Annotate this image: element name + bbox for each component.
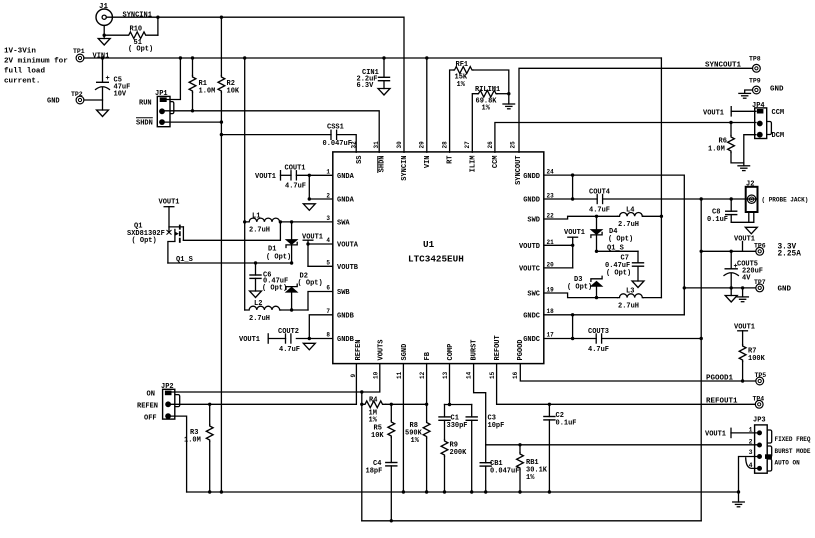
svg-text:0.047uF: 0.047uF	[323, 140, 352, 148]
svg-text:0.1uF: 0.1uF	[707, 216, 728, 224]
capacitor COUT2	[278, 328, 300, 354]
svg-text:2V minimum for: 2V minimum for	[4, 58, 68, 66]
capacitor C5	[96, 58, 131, 110]
wire JP4 pin3 to ground	[744, 135, 756, 166]
svg-text:( Opt): ( Opt)	[298, 280, 323, 288]
svg-text:REFOUT: REFOUT	[494, 335, 502, 360]
resistor RILIM1	[472, 86, 509, 152]
svg-text:REFEN: REFEN	[355, 339, 363, 360]
ground (C7, open triangle)	[632, 281, 644, 288]
wire pin1 line left portion	[281, 174, 292, 176]
svg-text:1%: 1%	[526, 474, 535, 482]
svg-text:1: 1	[326, 169, 330, 176]
wire L1 to pin 3 SWA	[281, 221, 333, 223]
svg-text:6.3V: 6.3V	[357, 82, 375, 90]
svg-text:4: 4	[326, 237, 330, 244]
wire pin 14 BURST	[474, 364, 486, 445]
svg-text:COUT3: COUT3	[588, 328, 609, 336]
wire VOUT1 tick to TP6 line	[742, 242, 744, 252]
junction pin8 / pin7 link	[308, 337, 311, 340]
wire pin 5	[308, 265, 333, 267]
svg-text:BURST: BURST	[470, 339, 478, 360]
svg-text:12: 12	[419, 371, 426, 379]
connector J2 probe jack	[746, 181, 809, 213]
svg-text:1.0M: 1.0M	[184, 437, 201, 445]
wire VOUTS drop to lower bus	[361, 392, 363, 521]
wire pin 19 SWC with jog	[544, 293, 618, 298]
wire CCM net: pin 26 to JP4 pin 2	[495, 123, 756, 153]
U1 bottom pin numbers	[350, 371, 519, 379]
wire FB line R4 to pin 12	[386, 403, 427, 405]
svg-text:CCM: CCM	[772, 109, 785, 117]
jumper JP3	[753, 417, 811, 474]
svg-text:FIXED FREQ: FIXED FREQ	[775, 436, 811, 443]
svg-text:OFF: OFF	[144, 415, 157, 423]
svg-text:31: 31	[373, 141, 380, 149]
capacitor COUT4	[589, 189, 610, 215]
svg-text:CSS1: CSS1	[327, 124, 344, 132]
svg-text:GNDD: GNDD	[523, 197, 540, 205]
svg-text:10pF: 10pF	[488, 422, 505, 430]
wire pin 2	[309, 198, 333, 200]
junction C5/VIN1	[101, 56, 104, 59]
svg-text:1V-3Vin: 1V-3Vin	[4, 48, 36, 56]
wire JP2 pin3 to ground bus	[171, 416, 187, 492]
svg-text:R6: R6	[719, 138, 727, 146]
capacitor C3	[466, 405, 505, 493]
junction GND rail / CSS1 ground line	[220, 133, 223, 136]
junction pin1 link	[308, 174, 311, 177]
test point TP8	[749, 56, 761, 73]
ground (below COUT5, open triangle)	[725, 288, 737, 302]
svg-text:JP4: JP4	[752, 102, 765, 110]
svg-text:SWB: SWB	[337, 289, 350, 297]
junction link/pin18	[571, 313, 574, 316]
svg-text:VOUTS: VOUTS	[377, 339, 385, 360]
svg-text:26: 26	[487, 141, 494, 149]
svg-text:11: 11	[396, 371, 403, 379]
svg-text:TP8: TP8	[749, 56, 761, 63]
svg-text:COMP: COMP	[447, 344, 455, 361]
test point TP7	[754, 279, 792, 294]
net tick VOUT1 (R7)	[737, 330, 748, 332]
svg-text:VOUTC: VOUTC	[519, 265, 540, 273]
svg-text:29: 29	[419, 141, 426, 149]
wire SYNCIN1 from J1 to pin 30	[107, 17, 405, 152]
U1 right pin names	[519, 173, 540, 344]
junction RB1 / bus	[518, 490, 521, 493]
svg-text:4.7uF: 4.7uF	[285, 183, 306, 191]
svg-text:VOUTD: VOUTD	[519, 243, 540, 251]
capacitor C7	[605, 251, 644, 281]
capacitor COUT3	[588, 328, 609, 354]
svg-text:VOUT1: VOUT1	[159, 199, 180, 207]
svg-text:( PROBE JACK): ( PROBE JACK)	[762, 197, 809, 204]
test point TP9	[749, 78, 784, 94]
svg-text:BURST MODE: BURST MODE	[775, 448, 811, 455]
diode D3	[567, 276, 602, 298]
wire JP3 pin4 link	[746, 458, 757, 469]
ground (R6/JP4, bar style)	[738, 166, 750, 171]
svg-text:VOUTB: VOUTB	[337, 264, 359, 272]
svg-text:GNDA: GNDA	[337, 197, 355, 205]
U1 right pin numbers	[547, 169, 555, 339]
wire pin 12 FB	[426, 364, 428, 421]
wire REFOUT1: pin 15 to TP4	[497, 364, 756, 405]
test point TP2	[71, 91, 84, 104]
inductor L2	[245, 300, 281, 323]
junction TP7 line / GND rail B	[683, 286, 686, 289]
svg-text:VOUT1: VOUT1	[734, 236, 755, 244]
resistor R10	[104, 26, 158, 54]
wire TP9 to ground	[745, 90, 753, 93]
junction R9 / bus	[443, 490, 446, 493]
svg-text:200K: 200K	[450, 449, 468, 457]
op-amp/IC U1 LTC3425EUH outline	[333, 152, 544, 364]
junction pin4 / VOUT link	[306, 242, 309, 245]
svg-text:14: 14	[465, 371, 472, 379]
wire OFF net: JP1 pin3 to GND rail	[165, 121, 222, 123]
svg-text:1%: 1%	[482, 105, 491, 113]
wire BURST net: corner to JP3 pin2	[486, 444, 757, 446]
svg-text:GND: GND	[47, 98, 60, 106]
svg-text:24: 24	[547, 169, 555, 176]
transistor Q1	[127, 207, 183, 263]
svg-text:3: 3	[326, 215, 330, 222]
svg-text:( Opt): ( Opt)	[128, 46, 153, 54]
wire TP2 to C5 ground leg	[84, 99, 103, 101]
junction COUT5 / TP6 line	[730, 250, 733, 253]
svg-text:AUTO ON: AUTO ON	[775, 460, 801, 467]
junction VOUTS vertical / R4 line	[360, 403, 363, 406]
ground (CIN1, open triangle)	[378, 89, 390, 96]
junction pin2 link	[308, 197, 311, 200]
junction L4 / VIN rail A	[660, 215, 663, 218]
svg-text:full load: full load	[4, 68, 45, 76]
junction R2 top / SYNCIN1	[220, 16, 223, 19]
wire COUT2 left to VOUT1 tick	[268, 338, 285, 340]
wire VOUT1 tick to JP3 pin1	[731, 432, 757, 434]
svg-text:3: 3	[749, 449, 753, 456]
ground (TP9, bar style)	[739, 93, 751, 98]
capacitor COUT5	[724, 251, 763, 288]
wire COUT4 to VOUT rail C and J2 line	[603, 198, 756, 200]
svg-text:SWC: SWC	[527, 291, 540, 299]
svg-text:FB: FB	[424, 351, 432, 360]
svg-text:SYNCIN1: SYNCIN1	[123, 11, 152, 19]
U1 bottom pin names (rotated)	[355, 335, 525, 360]
junction L1 left / VIN rail	[243, 220, 246, 223]
net tick VOUT1 (pin1)	[280, 170, 282, 181]
svg-text:current.: current.	[4, 78, 40, 86]
junction VOUT rail C top	[700, 197, 703, 200]
resistor R3	[184, 404, 213, 492]
junction C3 / bus	[470, 490, 473, 493]
wire GND rail x=221.4 down to ground bus	[220, 122, 222, 492]
test point TP5	[755, 372, 767, 385]
junction R5 top / FB line	[390, 403, 393, 406]
wire COUT3 to VOUT rail C	[602, 338, 702, 340]
svg-text:1%: 1%	[457, 81, 466, 89]
wire JP3 pin3 to ground	[739, 457, 758, 493]
capacitor C4	[366, 460, 398, 521]
net tick VOUT1 (JP4 pin1)	[730, 106, 732, 117]
svg-text:GNDC: GNDC	[523, 312, 540, 320]
svg-text:JP3: JP3	[753, 417, 766, 425]
wire pin 29 VIN riser	[426, 58, 428, 152]
junction SWA riser	[279, 220, 282, 223]
svg-text:15: 15	[489, 371, 496, 379]
svg-text:TP9: TP9	[749, 78, 761, 85]
junction R3 / REFEN	[208, 403, 211, 406]
svg-text:4.7uF: 4.7uF	[588, 346, 609, 354]
wire PGOOD1: pin 16 to TP5	[520, 364, 755, 381]
svg-text:( Opt): ( Opt)	[608, 236, 633, 244]
svg-text:+: +	[734, 263, 738, 271]
svg-text:GNDB: GNDB	[337, 312, 355, 320]
svg-text:( Opt): ( Opt)	[266, 254, 291, 262]
junction C2 / REFOUT1	[548, 403, 551, 406]
wire L3 right to VIN rail A end	[643, 297, 661, 299]
svg-text:SYNCOUT1: SYNCOUT1	[705, 62, 742, 70]
svg-text:7: 7	[326, 308, 330, 315]
svg-text:RT: RT	[447, 156, 455, 164]
inductor L4	[618, 207, 644, 230]
net tick VOUT1 (Q1 source)	[164, 206, 175, 208]
svg-text:D1: D1	[268, 246, 276, 254]
jumper JP4	[752, 102, 784, 140]
svg-text:VOUT1: VOUT1	[703, 110, 724, 118]
wire pin 24 GNDD to GND rail B	[544, 175, 685, 315]
svg-text:23: 23	[547, 192, 555, 199]
svg-text:RUN: RUN	[139, 100, 152, 108]
resistor R7	[739, 331, 765, 381]
wire lower VOUT bus	[362, 520, 701, 522]
svg-text:SGND: SGND	[401, 344, 409, 361]
ground (TP7 line, bar style)	[737, 286, 749, 302]
svg-text:R10: R10	[130, 26, 143, 34]
resistor RF1	[450, 61, 473, 152]
wire J2 pins down	[748, 212, 750, 222]
svg-text:REFOUT1: REFOUT1	[706, 398, 738, 406]
wire pin17/pin18 gnd link	[572, 315, 574, 339]
svg-text:LTC3425EUH: LTC3425EUH	[408, 254, 464, 265]
junction C2 / bus	[548, 490, 551, 493]
wire JP1 pin1 to VIN1	[167, 58, 181, 100]
svg-text:0.1uF: 0.1uF	[556, 420, 577, 428]
svg-text:32: 32	[351, 141, 358, 149]
svg-text:TP7: TP7	[754, 279, 766, 286]
svg-text:SYNCOUT: SYNCOUT	[515, 156, 523, 185]
test point TP4	[753, 396, 765, 409]
capacitor CIN1	[357, 58, 391, 90]
svg-text:4.7uF: 4.7uF	[589, 207, 610, 215]
inductor L1	[245, 213, 281, 235]
junction D4 top / SWD	[595, 215, 598, 218]
junction OFF line / GND rail	[220, 120, 223, 123]
capacitor CSS1	[323, 124, 352, 149]
capacitor C1	[438, 405, 467, 440]
wire pin 7 GNDB	[309, 315, 333, 339]
junction R6 top / CCM line	[729, 121, 732, 124]
junction JP3 ground / bus	[737, 490, 740, 493]
resistor R8	[405, 421, 430, 492]
svg-text:COUT2: COUT2	[278, 328, 299, 336]
wire L2 to SWB corner	[281, 309, 308, 311]
junction COUT3 line / VOUT rail C	[700, 337, 703, 340]
wire pin 13 COMP	[449, 364, 451, 405]
wire pin24/pin23 gnd link	[572, 175, 574, 199]
svg-text:6: 6	[326, 285, 330, 292]
wire VIN rail right (A x=661.4)	[660, 58, 662, 298]
svg-text:VOUT1: VOUT1	[255, 173, 276, 181]
svg-text:( Opt): ( Opt)	[567, 284, 592, 292]
svg-text:VOUT1: VOUT1	[564, 229, 585, 237]
wire pin 21	[544, 244, 573, 246]
wire VOUT link pins 21-20	[572, 237, 574, 268]
svg-text:2.7uH: 2.7uH	[618, 221, 639, 229]
junction pin13 / COMP line	[448, 403, 451, 406]
svg-text:DCM: DCM	[772, 132, 785, 140]
svg-text:COUT4: COUT4	[589, 189, 610, 197]
junction link/pin17	[571, 337, 574, 340]
wire VIN rail (x=244.7)	[244, 58, 246, 310]
net tick VOUT1 (pin21)	[567, 236, 578, 238]
net tick VOUT1 (COUT2)	[267, 333, 269, 344]
svg-text:GNDA: GNDA	[337, 173, 355, 181]
test point TP6	[754, 243, 766, 256]
ground (pin8 GNDB, open triangle)	[303, 343, 315, 350]
svg-text:27: 27	[464, 141, 471, 149]
svg-text:1%: 1%	[369, 417, 378, 425]
svg-text:REFEN: REFEN	[137, 403, 158, 411]
junction CB1 / bus	[484, 490, 487, 493]
wire GND rail B corner to pin 18	[544, 314, 685, 316]
junction VIN rail / VIN1	[243, 56, 246, 59]
svg-text:28: 28	[442, 141, 449, 149]
svg-text:PGOOD1: PGOOD1	[706, 375, 734, 383]
wire REFEN net: JP2 pin2 to pin 9	[171, 364, 356, 405]
test point TP1	[73, 48, 85, 62]
svg-text:SHDN: SHDN	[136, 120, 153, 128]
resistor RB1	[517, 445, 548, 492]
capacitor COUT1	[285, 165, 307, 191]
inductor L3	[618, 288, 644, 311]
ground (main bus end, bar style)	[733, 492, 745, 507]
wire TP6/VOUT line	[701, 250, 755, 252]
svg-text:TP6: TP6	[754, 243, 766, 250]
wire net Q1_S (left)	[168, 262, 292, 264]
svg-text:GNDD: GNDD	[523, 173, 540, 181]
wire Q1_S right segment	[597, 250, 639, 252]
wire C8 bottom to J2 ground	[731, 221, 754, 223]
svg-text:18pF: 18pF	[366, 468, 383, 476]
ground (pin2 GNDA, open triangle)	[303, 204, 315, 211]
svg-text:VOUT1: VOUT1	[239, 336, 260, 344]
resistor R1	[189, 58, 215, 111]
svg-text:10K: 10K	[227, 88, 240, 96]
svg-text:SWD: SWD	[527, 217, 540, 225]
wire COMP line	[445, 404, 472, 406]
junction COUT5 bottom	[730, 286, 733, 289]
svg-text:13: 13	[442, 371, 449, 379]
svg-text:RILIM1: RILIM1	[475, 86, 500, 94]
junction RB1 / BURST line	[518, 443, 521, 446]
svg-text:TP5: TP5	[755, 372, 767, 379]
svg-text:4V: 4V	[742, 275, 751, 283]
wire ON net: JP2 pin1 to VOUTS junction	[172, 391, 362, 393]
junction C4 / lower bus	[390, 519, 393, 522]
svg-text:ILIM: ILIM	[470, 156, 478, 173]
junction R10/J1 ground	[103, 34, 106, 37]
wire main ground bus	[187, 491, 739, 493]
svg-text:25: 25	[510, 141, 517, 149]
junction R7 / PGOOD1	[741, 379, 744, 382]
junction R10/SYNCIN1	[156, 16, 159, 19]
capacitor C8	[707, 199, 737, 224]
capacitor C2	[543, 404, 576, 492]
svg-text:2.7uH: 2.7uH	[618, 303, 639, 311]
junction R1 top / VIN1	[191, 56, 194, 59]
junction VOUTS / ON line	[360, 390, 363, 393]
svg-text:VOUT1: VOUT1	[705, 431, 726, 439]
diode D4	[591, 216, 634, 251]
junction D3/D4/Q1_S	[595, 250, 598, 253]
connector J1	[96, 3, 112, 25]
svg-text:2.25A: 2.25A	[778, 251, 802, 259]
svg-text:10K: 10K	[371, 432, 384, 440]
U1 top pin numbers	[351, 141, 517, 149]
svg-text:VIN: VIN	[424, 156, 432, 169]
svg-text:17: 17	[547, 332, 555, 339]
wire pin 20	[544, 267, 573, 269]
svg-text:10: 10	[372, 371, 379, 379]
capacitor C6	[249, 263, 288, 293]
svg-text:RF1: RF1	[456, 61, 469, 69]
junction JP1 pin1 riser / VIN1	[179, 56, 182, 59]
svg-text:2.7uH: 2.7uH	[249, 227, 270, 235]
svg-text:SWA: SWA	[337, 220, 350, 228]
diode D1	[266, 222, 297, 263]
JP3 pin numbers	[749, 427, 753, 470]
wire COUT1 to pin 1	[296, 174, 332, 176]
junction link/pin23	[571, 197, 574, 200]
junction R8 / bus	[425, 490, 428, 493]
svg-text:100K: 100K	[748, 355, 766, 363]
wire VIN1 main line	[84, 57, 661, 59]
junction pin12 / FB line	[425, 403, 428, 406]
ground (RF1/RILIM1, bar style)	[503, 104, 515, 109]
svg-text:U1: U1	[423, 239, 435, 250]
junction bus/GND rail	[220, 490, 223, 493]
junction R1 bottom / SHDN	[191, 109, 194, 112]
wire pin 23 line to COUT4	[544, 198, 597, 200]
wire pin 6 SWB	[308, 292, 333, 311]
ground (J2, open triangle)	[745, 227, 757, 234]
svg-text:SYNCIN: SYNCIN	[401, 156, 409, 181]
ground (J1, open triangle)	[98, 39, 110, 46]
wire SYNCOUT1: pin 25 to TP8	[519, 68, 753, 152]
ground (C5, open triangle)	[97, 110, 109, 117]
wire TP7 GND line	[684, 287, 755, 289]
junction C6 / Q1_S	[254, 261, 257, 264]
svg-text:COUT1: COUT1	[285, 165, 306, 173]
wire VOUT rail C	[700, 199, 702, 521]
svg-text:ON: ON	[147, 391, 155, 399]
svg-text:( Opt): ( Opt)	[132, 237, 157, 245]
resistor R6	[708, 123, 744, 163]
wire pin 10 VOUTS	[362, 364, 380, 392]
